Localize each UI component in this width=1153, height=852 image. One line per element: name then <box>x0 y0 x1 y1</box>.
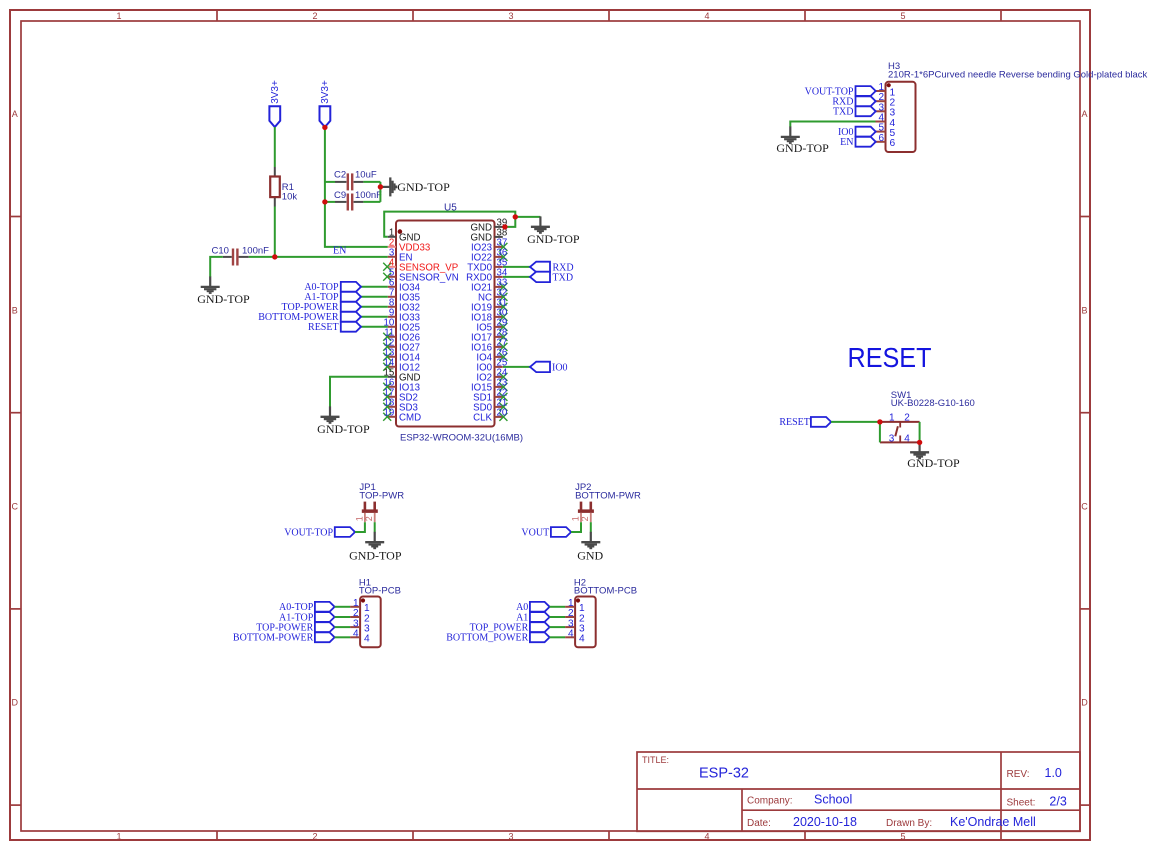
U5 pin 11 (IO26) <box>383 328 420 344</box>
connector H3 body <box>886 61 1148 152</box>
U5 pin 10 (IO25) <box>384 318 420 334</box>
svg-text:GND-TOP: GND-TOP <box>197 292 250 306</box>
svg-text:C: C <box>1081 502 1088 512</box>
resistor R1 10k <box>270 167 297 207</box>
wire A0-TOP to H1 pin 1 <box>335 606 351 608</box>
svg-text:3: 3 <box>508 11 513 21</box>
capacitor C10 100nF <box>212 246 270 266</box>
junction SW1 pin1 / RESET net <box>877 419 882 424</box>
wire C9 right <box>363 201 380 203</box>
svg-text:Date:: Date: <box>747 818 771 829</box>
svg-text:Sheet:: Sheet: <box>1007 798 1036 809</box>
wire JP1 pin2 to ground <box>374 522 376 532</box>
wire JP2 pin2 to ground <box>590 522 592 532</box>
capacitor C9 100nF <box>334 190 382 211</box>
capacitor C2 10uF <box>334 170 377 191</box>
port A0 (H2 pin 1) <box>516 602 550 613</box>
port VOUT-TOP (JP1) <box>284 527 355 538</box>
svg-text:CMD: CMD <box>399 413 421 424</box>
svg-text:3V3+: 3V3+ <box>320 80 331 104</box>
junction SW1 pin4 / GND net <box>917 440 922 445</box>
svg-text:EN: EN <box>333 245 346 256</box>
connector H2 body <box>574 577 637 647</box>
port BOTTOM-POWER (U5) <box>258 312 388 323</box>
svg-text:C2: C2 <box>334 170 346 181</box>
svg-text:School: School <box>814 793 852 807</box>
wire U5 pin15 GND <box>330 377 388 407</box>
port RESET (U5) <box>308 322 388 333</box>
U5 pin 27 (IO16) <box>471 338 507 354</box>
U5 pin 33 (IO21) <box>471 278 507 294</box>
svg-text:4: 4 <box>704 832 709 842</box>
svg-text:3: 3 <box>889 433 895 444</box>
U5 pin 35 (TXD0) <box>467 258 507 274</box>
H1 pin 1 <box>350 598 370 614</box>
wire C9 left <box>325 201 335 203</box>
svg-text:100nF: 100nF <box>242 246 269 257</box>
U5 pin 39 (GND) <box>470 218 507 234</box>
U5 pin 18 (SD3) <box>383 398 418 414</box>
svg-text:210R-1*6PCurved needle Reverse: 210R-1*6PCurved needle Reverse bending G… <box>888 70 1148 81</box>
svg-text:RESET: RESET <box>848 342 932 373</box>
wire BOTTOM_POWER to H2 pin 4 <box>550 636 566 638</box>
svg-text:2: 2 <box>312 832 317 842</box>
ground GND-TOP (JP1) <box>349 532 402 563</box>
port IO0 (H3 pin 5) <box>838 127 876 138</box>
port A0-TOP (U5) <box>304 282 387 293</box>
H2 pin 4 <box>565 629 585 645</box>
svg-text:REV:: REV: <box>1007 769 1030 780</box>
U5 pin 36 (IO22) <box>471 248 507 264</box>
wire VOUT to JP2 pin1 <box>571 522 581 532</box>
port A1-TOP (H1 pin 2) <box>279 612 335 623</box>
svg-text:A: A <box>12 109 18 119</box>
junction 3V3+ net <box>322 125 327 130</box>
svg-text:1: 1 <box>116 11 121 21</box>
junction C2-C9 to GND-TOP <box>378 184 383 189</box>
U5 pin 13 (IO14) <box>383 348 420 364</box>
svg-text:IO0: IO0 <box>552 363 568 374</box>
svg-text:1: 1 <box>889 412 895 423</box>
U5 pin 26 (IO4) <box>476 348 507 364</box>
H2 pin 2 <box>565 608 585 624</box>
wire C10 left <box>210 257 223 277</box>
U5 pin 5 (SENSOR_VN) <box>383 268 459 284</box>
svg-text:CLK: CLK <box>473 413 492 424</box>
svg-text:B: B <box>12 305 18 315</box>
H3 pin 5 <box>876 123 896 139</box>
wire EN net C10 to pin3 <box>249 256 388 258</box>
svg-text:VOUT-TOP: VOUT-TOP <box>284 527 333 538</box>
svg-text:D: D <box>12 698 19 708</box>
svg-text:19: 19 <box>384 408 395 419</box>
svg-text:Drawn By:: Drawn By: <box>886 818 932 829</box>
svg-text:5: 5 <box>900 832 905 842</box>
svg-text:2: 2 <box>312 11 317 21</box>
svg-text:2020-10-18: 2020-10-18 <box>793 815 857 829</box>
U5 pin 22 (SD1) <box>473 388 507 404</box>
wire SW1 left vertical <box>879 422 881 443</box>
wire RESET to SW1 <box>831 421 880 423</box>
U5 pin 15 (GND) <box>384 368 421 384</box>
U5 pin 4 (SENSOR_VP) <box>383 258 458 274</box>
svg-text:4: 4 <box>353 629 359 640</box>
ground GND-TOP below C10 <box>197 277 250 306</box>
H3 pin 6 <box>876 133 896 149</box>
wire U5 pin1 GND loop to pin39 <box>384 212 515 237</box>
wire BOTTOM-POWER to H1 pin 4 <box>335 636 351 638</box>
ground GND (JP2) <box>577 532 603 563</box>
port TOP-POWER (H1 pin 3) <box>256 622 334 633</box>
U5 pin 1 (GND) <box>388 228 421 244</box>
svg-text:A: A <box>1081 109 1087 119</box>
switch SW1 <box>880 390 975 445</box>
svg-text:C10: C10 <box>212 246 229 257</box>
power flag 3V3+ (left, to R1) <box>269 80 281 127</box>
svg-text:TXD: TXD <box>833 107 854 118</box>
svg-text:6: 6 <box>878 133 884 144</box>
svg-text:2: 2 <box>364 516 374 521</box>
title block <box>637 752 1080 831</box>
U5 pin 32 (NC) <box>478 288 507 304</box>
svg-text:D: D <box>1081 698 1088 708</box>
svg-text:4: 4 <box>364 634 370 645</box>
svg-text:UK-B0228-G10-160: UK-B0228-G10-160 <box>891 398 975 409</box>
H2 pin 3 <box>565 618 585 634</box>
wire 3V3+ down to pin2 VDD33 <box>325 127 388 247</box>
svg-text:10k: 10k <box>282 192 298 203</box>
svg-text:GND-TOP: GND-TOP <box>527 232 580 246</box>
port IO0 (U5 pin25) <box>503 362 568 374</box>
wire C2 right <box>363 181 380 183</box>
svg-text:BOTTOM-POWER: BOTTOM-POWER <box>233 633 314 644</box>
U5 pin 16 (IO13) <box>383 378 420 394</box>
svg-text:GND-TOP: GND-TOP <box>907 456 960 470</box>
port TOP-POWER (U5) <box>282 302 388 313</box>
svg-text:C9: C9 <box>334 190 346 201</box>
port TXD (H3 pin 3) <box>833 106 876 117</box>
svg-text:4: 4 <box>568 629 574 640</box>
border column numbers bottom <box>116 832 905 842</box>
junction C9 left / VDD33 net <box>322 199 327 204</box>
port TXD (U5 pin34) <box>503 272 573 284</box>
svg-text:2: 2 <box>904 412 910 423</box>
wire SW1 right vertical <box>919 422 921 443</box>
svg-text:1: 1 <box>354 516 364 521</box>
svg-text:100nF: 100nF <box>355 190 382 201</box>
svg-text:GND-TOP: GND-TOP <box>776 141 829 155</box>
U5 pin 3 (EN) <box>388 248 413 264</box>
svg-text:Company:: Company: <box>747 796 793 807</box>
H3 pin 2 <box>876 92 896 108</box>
H3 pin 3 <box>876 102 896 118</box>
svg-text:GND-TOP: GND-TOP <box>349 548 402 562</box>
port EN (H3 pin 6) <box>840 137 876 148</box>
svg-text:10uF: 10uF <box>355 170 377 181</box>
U5 pin 24 (IO2) <box>476 368 508 384</box>
svg-text:4: 4 <box>904 433 910 444</box>
svg-text:6: 6 <box>890 138 896 149</box>
U5 pin 37 (IO23) <box>471 238 507 254</box>
port RESET (SW1) <box>779 417 831 428</box>
H3 pin 4 <box>876 113 896 129</box>
jumper JP2 <box>570 482 641 522</box>
wire TOP_POWER to H2 pin 3 <box>550 626 566 628</box>
U5 pin 28 (IO17) <box>471 328 507 344</box>
svg-text:ESP-32: ESP-32 <box>699 766 749 782</box>
U5 pin 8 (IO32) <box>388 298 420 314</box>
U5 pin 19 (CMD) <box>383 408 421 424</box>
wire 3V3 branch to C2 <box>325 181 335 183</box>
svg-text:BOTTOM-PWR: BOTTOM-PWR <box>575 491 641 502</box>
U5 pin 30 (IO18) <box>471 308 508 324</box>
svg-text:EN: EN <box>840 137 853 148</box>
port A1-TOP (U5) <box>304 292 387 303</box>
wire junction to GND-TOP <box>515 216 540 218</box>
port BOTTOM_POWER (H2 pin 4) <box>446 632 549 643</box>
ground GND-TOP (H3) <box>776 127 829 156</box>
port RXD (H3 pin 2) <box>832 96 875 107</box>
wire A1 to H2 pin 2 <box>550 616 566 618</box>
port VOUT (JP2) <box>521 527 571 538</box>
U5 pin 14 (IO12) <box>383 358 420 374</box>
wire H3 pin4 to ground <box>790 122 875 128</box>
ground GND-TOP right of U5 <box>527 216 580 246</box>
U5 pin 17 (SD2) <box>383 388 418 404</box>
svg-text:TOP-PCB: TOP-PCB <box>359 585 401 596</box>
port A0-TOP (H1 pin 1) <box>279 602 335 613</box>
svg-text:1.0: 1.0 <box>1045 766 1062 780</box>
port VOUT-TOP (H3 pin 1) <box>805 86 876 97</box>
wire A1-TOP to H1 pin 2 <box>335 616 351 618</box>
svg-text:GND: GND <box>577 548 603 562</box>
svg-text:ESP32-WROOM-32U(16MB): ESP32-WROOM-32U(16MB) <box>400 432 523 443</box>
junction U5 pin39 <box>502 224 507 229</box>
U5 pin 38 (GND) <box>470 228 507 244</box>
border row letters left <box>12 109 19 708</box>
svg-text:B: B <box>1081 305 1087 315</box>
svg-text:BOTTOM_POWER: BOTTOM_POWER <box>446 633 528 644</box>
junction GND net top-right <box>513 214 518 219</box>
svg-text:2/3: 2/3 <box>1049 795 1066 809</box>
wire 3V3+ to R1 <box>274 127 276 167</box>
svg-text:1: 1 <box>570 516 580 521</box>
H2 pin 1 <box>565 598 585 614</box>
svg-text:1: 1 <box>116 832 121 842</box>
border column numbers top <box>116 11 905 21</box>
connector H1 body <box>359 577 401 647</box>
U5 pin 31 (IO19) <box>471 298 507 314</box>
U5 pin 12 (IO27) <box>383 338 420 354</box>
wire A0 to H2 pin 1 <box>550 606 566 608</box>
svg-text:3V3+: 3V3+ <box>270 80 281 104</box>
svg-text:Ke'Ondrae Mell: Ke'Ondrae Mell <box>950 815 1036 829</box>
svg-text:RESET: RESET <box>779 417 810 428</box>
svg-text:TXD: TXD <box>553 273 574 284</box>
U5 pin 2 (VDD33) <box>388 238 430 254</box>
ground GND-TOP below U5 <box>317 406 370 436</box>
svg-text:4: 4 <box>579 634 585 645</box>
svg-text:BOTTOM-PCB: BOTTOM-PCB <box>574 585 637 596</box>
svg-text:GND-TOP: GND-TOP <box>397 180 450 194</box>
port TOP_POWER (H2 pin 3) <box>470 622 550 633</box>
H3 pin 1 <box>876 82 896 98</box>
U5 pin 25 (IO0) <box>476 358 507 374</box>
svg-text:VOUT: VOUT <box>521 527 549 538</box>
svg-text:4: 4 <box>704 11 709 21</box>
U5 pin 20 (CLK) <box>473 408 508 424</box>
svg-text:GND-TOP: GND-TOP <box>317 422 370 436</box>
H1 pin 4 <box>350 629 370 645</box>
U5 pin 21 (SD0) <box>473 398 507 414</box>
svg-text:3: 3 <box>508 832 513 842</box>
H1 pin 3 <box>350 618 370 634</box>
U5 pin 6 (IO34) <box>388 278 421 294</box>
U5 pin 23 (IO15) <box>471 378 507 394</box>
wire TOP-POWER to H1 pin 3 <box>335 626 351 628</box>
wire R1 to EN junction <box>274 207 276 257</box>
port BOTTOM-POWER (H1 pin 4) <box>233 632 335 643</box>
wire VOUT-TOP to JP1 pin1 <box>355 522 365 532</box>
svg-text:C: C <box>12 502 19 512</box>
wire C2-C9 right vertical <box>379 182 381 202</box>
U5 pin 7 (IO35) <box>388 288 420 304</box>
port RXD (U5 pin35) <box>503 262 574 274</box>
U5 pin 9 (IO33) <box>388 308 420 324</box>
svg-text:RESET: RESET <box>308 322 339 333</box>
border row letters right <box>1081 109 1088 708</box>
IC U5 ESP32-WROOM-32U body <box>396 202 523 443</box>
ground GND-TOP (right of C2) <box>380 177 450 196</box>
svg-text:TITLE:: TITLE: <box>642 755 669 765</box>
U5 pin 29 (IO5) <box>476 318 507 334</box>
jumper JP1 <box>354 482 404 522</box>
junction R1/C10/EN net <box>272 254 277 259</box>
U5 pin 34 (RXD0) <box>466 268 508 284</box>
svg-text:20: 20 <box>497 408 508 419</box>
port A1 (H2 pin 2) <box>516 612 550 623</box>
ground GND-TOP (SW1) <box>907 442 960 470</box>
svg-text:5: 5 <box>900 11 905 21</box>
svg-text:TOP-PWR: TOP-PWR <box>359 491 404 502</box>
H1 pin 2 <box>350 608 370 624</box>
power flag 3V3+ (right, to VDD33) <box>320 80 332 127</box>
svg-text:2: 2 <box>580 516 590 521</box>
